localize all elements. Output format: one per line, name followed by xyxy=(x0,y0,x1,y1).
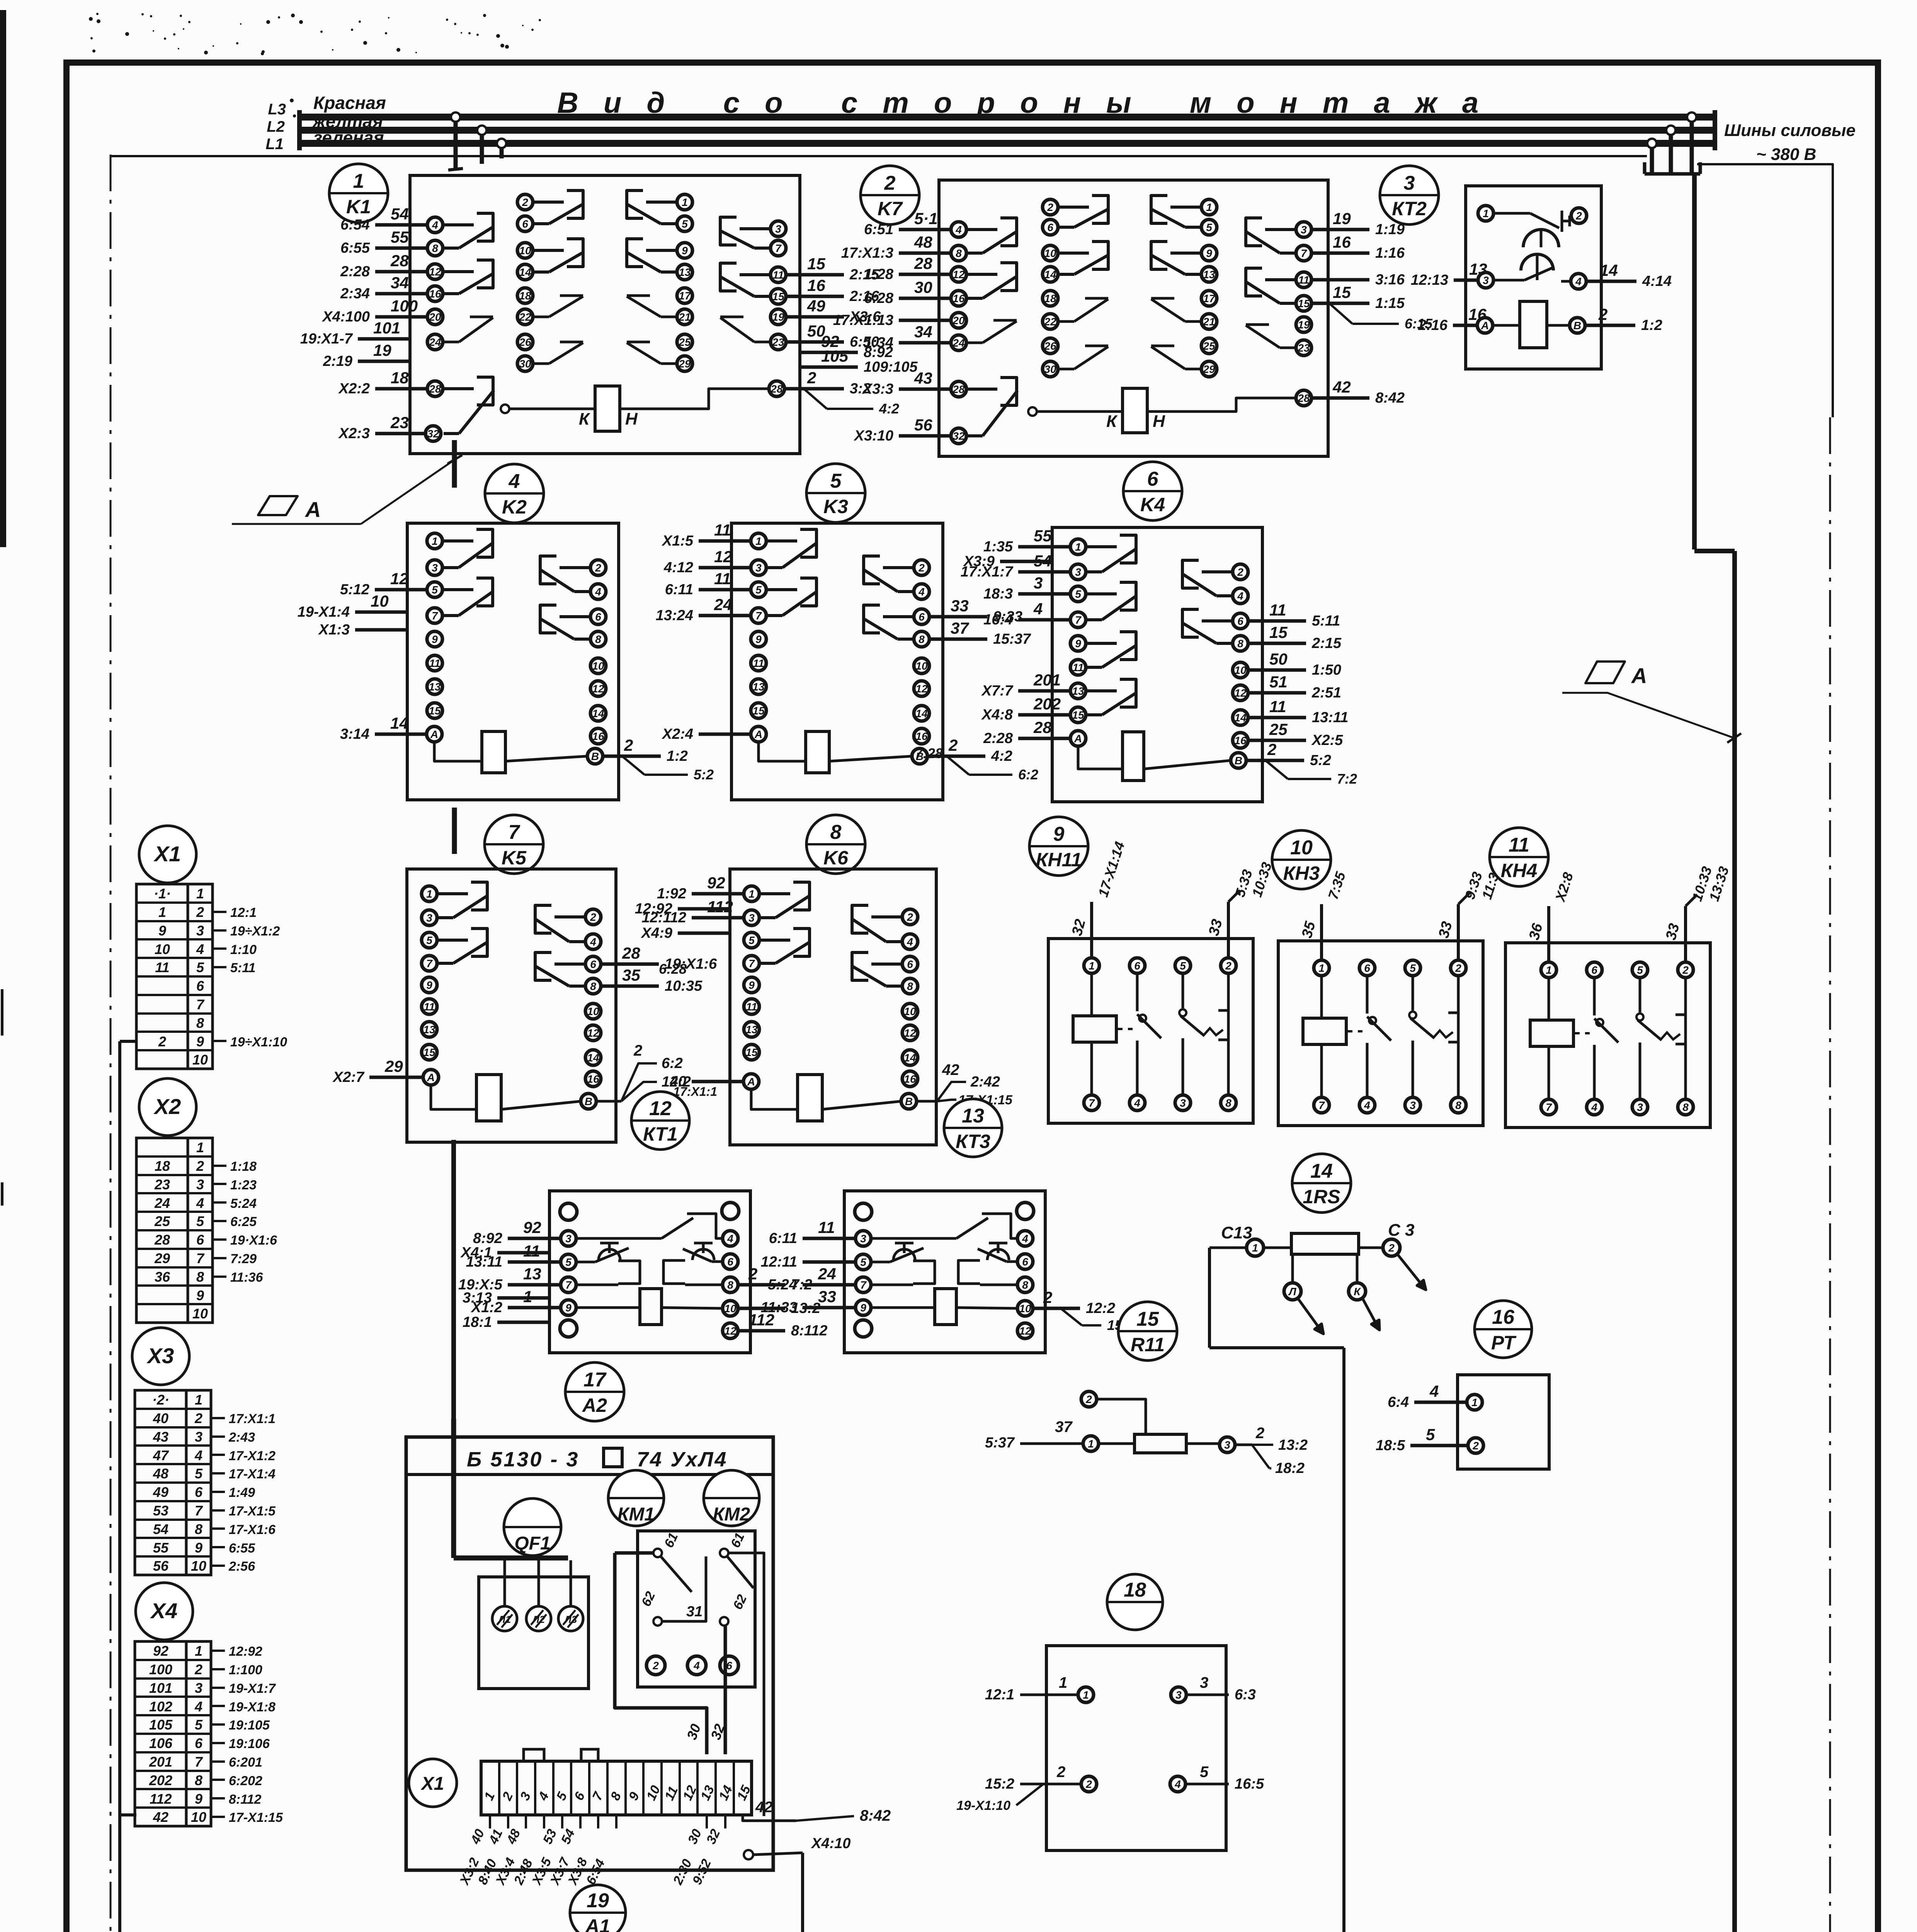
unit A2 X1 comb xyxy=(481,1749,754,1815)
time relay КТ1 right wires xyxy=(739,1265,827,1339)
svg-text:1: 1 xyxy=(1546,964,1552,976)
svg-text:2:42: 2:42 xyxy=(970,1074,1000,1090)
bus L3 Красная xyxy=(299,110,1715,124)
svg-text:2: 2 xyxy=(1085,1393,1092,1405)
svg-text:2: 2 xyxy=(595,562,601,574)
svg-text:21: 21 xyxy=(678,311,691,323)
svg-text:К: К xyxy=(579,410,590,429)
time relay КТ3 internal contacts xyxy=(871,1214,1017,1325)
svg-text:30: 30 xyxy=(1044,363,1056,375)
relay K6 pin B forked wires 2:42 17:X1:15 xyxy=(917,1061,1013,1107)
svg-text:23: 23 xyxy=(772,336,784,348)
svg-text:2:56: 2:56 xyxy=(228,1559,255,1574)
svg-text:1: 1 xyxy=(1483,207,1489,219)
cable mark bar above K5 xyxy=(452,808,457,854)
svg-text:30: 30 xyxy=(519,358,531,370)
svg-text:8: 8 xyxy=(727,1279,733,1291)
unit A2 X1:15 wire 8:42 xyxy=(743,1799,891,1824)
svg-text:2: 2 xyxy=(918,562,925,574)
svg-text:10: 10 xyxy=(904,1005,916,1017)
resistor 1RS element xyxy=(1221,1221,1414,1300)
svg-text:X2:7: X2:7 xyxy=(332,1069,365,1085)
terminal block X3 label circle xyxy=(132,1328,189,1385)
svg-text:1: 1 xyxy=(432,535,438,547)
relay K6 contact pins xyxy=(744,882,918,1087)
svg-text:14: 14 xyxy=(1044,269,1056,281)
svg-text:5: 5 xyxy=(195,1466,203,1481)
svg-text:K7: K7 xyxy=(878,198,903,219)
panel boundary top xyxy=(111,155,1647,157)
svg-text:2: 2 xyxy=(624,736,633,754)
relay K5 right wires xyxy=(601,944,717,994)
svg-text:16:5: 16:5 xyxy=(1235,1776,1264,1792)
svg-text:X3: X3 xyxy=(146,1344,174,1368)
svg-text:16: 16 xyxy=(953,293,965,304)
svg-text:25: 25 xyxy=(678,336,691,348)
svg-text:1:16: 1:16 xyxy=(1375,245,1405,261)
svg-text:16: 16 xyxy=(1234,735,1247,747)
svg-text:5:11: 5:11 xyxy=(1312,613,1340,629)
svg-text:2: 2 xyxy=(1043,1288,1052,1306)
svg-text:16: 16 xyxy=(807,276,825,294)
svg-text:9: 9 xyxy=(682,245,688,257)
svg-text:4: 4 xyxy=(194,1447,202,1463)
svg-text:18: 18 xyxy=(391,369,409,387)
svg-text:5: 5 xyxy=(1180,960,1186,972)
svg-text:5: 5 xyxy=(432,584,438,596)
svg-text:6: 6 xyxy=(522,218,528,230)
svg-text:2: 2 xyxy=(652,1660,659,1672)
svg-text:26: 26 xyxy=(519,336,531,348)
svg-text:3: 3 xyxy=(196,1177,204,1192)
svg-text:8:92: 8:92 xyxy=(473,1230,502,1247)
svg-text:4: 4 xyxy=(196,1195,204,1211)
svg-text:48: 48 xyxy=(914,233,932,251)
svg-text:В: В xyxy=(1573,320,1581,332)
relay K5 coil xyxy=(423,1070,596,1121)
svg-text:34: 34 xyxy=(914,323,932,341)
relay КН11 top wires xyxy=(1069,840,1275,958)
svg-text:6:51: 6:51 xyxy=(864,221,893,238)
svg-text:18: 18 xyxy=(519,290,531,302)
panel unit A2 (pos 17) label circle xyxy=(565,1362,624,1421)
svg-text:16:4: 16:4 xyxy=(983,612,1013,628)
svg-text:2: 2 xyxy=(1388,1242,1395,1254)
svg-text:7: 7 xyxy=(1546,1101,1552,1113)
svg-text:106: 106 xyxy=(149,1735,173,1751)
svg-text:8: 8 xyxy=(196,1015,204,1031)
svg-text:23: 23 xyxy=(1297,342,1310,354)
svg-text:5: 5 xyxy=(748,934,755,946)
svg-text:51: 51 xyxy=(1269,673,1288,691)
unit A2 wire X4:10 to N bus xyxy=(744,1835,850,1932)
svg-text:5: 5 xyxy=(1206,221,1212,233)
svg-text:9: 9 xyxy=(196,1287,204,1303)
svg-text:50: 50 xyxy=(1269,650,1288,668)
svg-text:48: 48 xyxy=(153,1466,168,1481)
svg-text:3:16: 3:16 xyxy=(1375,272,1405,288)
relay PT pins xyxy=(1467,1395,1483,1453)
svg-text:4: 4 xyxy=(1174,1778,1181,1790)
svg-text:КТ2: КТ2 xyxy=(1392,198,1427,219)
svg-text:105: 105 xyxy=(821,347,849,365)
relay КН3 top wires xyxy=(1299,864,1504,960)
svg-text:2: 2 xyxy=(1455,962,1461,974)
svg-text:10: 10 xyxy=(1290,837,1313,859)
time relay KT2 (pos 3) label circle xyxy=(1380,166,1439,224)
svg-text:1:35: 1:35 xyxy=(983,539,1013,555)
svg-text:18:3: 18:3 xyxy=(983,586,1013,602)
svg-text:14: 14 xyxy=(587,1052,599,1064)
svg-text:29: 29 xyxy=(678,358,691,370)
svg-text:11: 11 xyxy=(1269,697,1286,716)
svg-text:19:105: 19:105 xyxy=(229,1718,270,1733)
svg-text:КН11: КН11 xyxy=(1036,849,1082,871)
svg-text:28: 28 xyxy=(1033,718,1052,736)
svg-text:18:1: 18:1 xyxy=(463,1314,492,1330)
svg-text:18: 18 xyxy=(1124,1579,1146,1601)
harness wire from X1:9 down to N bus xyxy=(120,1041,136,1932)
svg-text:4: 4 xyxy=(194,1699,202,1714)
svg-text:7: 7 xyxy=(860,1279,867,1291)
svg-text:8: 8 xyxy=(595,633,601,645)
svg-text:54: 54 xyxy=(391,205,409,223)
svg-text:32: 32 xyxy=(953,430,965,442)
svg-text:36: 36 xyxy=(155,1269,170,1285)
svg-text:1: 1 xyxy=(196,1139,204,1155)
relay КН3 coil and switches xyxy=(1303,976,1458,1097)
relay КН4 pins xyxy=(1541,962,1693,1115)
svg-text:7:29: 7:29 xyxy=(230,1252,257,1266)
svg-text:100: 100 xyxy=(391,297,418,315)
svg-text:9: 9 xyxy=(755,633,762,645)
svg-text:8: 8 xyxy=(919,633,925,645)
svg-text:L2: L2 xyxy=(267,118,285,135)
svg-text:2: 2 xyxy=(907,911,913,923)
time relay KT3 fork 15:2 xyxy=(1061,1308,1135,1333)
svg-text:17: 17 xyxy=(679,290,691,302)
svg-text:4: 4 xyxy=(693,1660,700,1672)
svg-text:12: 12 xyxy=(429,266,441,278)
svg-text:101: 101 xyxy=(373,319,400,337)
svg-text:7: 7 xyxy=(426,957,433,969)
unit A2 header xyxy=(406,1448,773,1475)
svg-text:10: 10 xyxy=(1234,664,1247,676)
svg-text:11: 11 xyxy=(772,269,784,281)
svg-text:1: 1 xyxy=(755,535,762,547)
svg-text:С 3: С 3 xyxy=(1388,1221,1414,1240)
svg-text:X2:4: X2:4 xyxy=(662,726,693,742)
svg-text:33: 33 xyxy=(951,597,969,615)
svg-text:1: 1 xyxy=(1206,201,1212,213)
svg-text:6:4: 6:4 xyxy=(1388,1394,1409,1410)
svg-text:15: 15 xyxy=(423,1046,435,1058)
relay КН3 box xyxy=(1278,941,1483,1126)
svg-text:2: 2 xyxy=(633,1042,642,1059)
svg-text:12: 12 xyxy=(953,269,965,281)
svg-text:28: 28 xyxy=(429,383,441,395)
label Шины силовые ~380 В xyxy=(1724,121,1856,164)
svg-text:24: 24 xyxy=(818,1265,836,1283)
svg-text:13: 13 xyxy=(429,681,441,693)
relay K7 left wires xyxy=(833,209,951,444)
svg-text:5: 5 xyxy=(426,934,432,946)
svg-text:5: 5 xyxy=(196,959,204,975)
svg-text:201: 201 xyxy=(149,1754,172,1770)
terminal block X1 label circle xyxy=(139,826,196,883)
relay K1 right wires xyxy=(786,255,918,397)
svg-text:K6: K6 xyxy=(823,847,849,869)
svg-text:9: 9 xyxy=(860,1302,866,1314)
relay K6 left wires xyxy=(635,874,744,1090)
svg-text:6:28: 6:28 xyxy=(864,290,894,306)
svg-text:7: 7 xyxy=(1318,1099,1325,1111)
relay K7 extra fork 6:15 xyxy=(1329,303,1433,332)
svg-text:11: 11 xyxy=(429,657,440,669)
svg-text:20: 20 xyxy=(429,311,441,323)
unit A2 KM contact box xyxy=(638,1531,755,1687)
svg-text:4: 4 xyxy=(1022,1233,1028,1245)
svg-text:112: 112 xyxy=(707,898,733,916)
svg-text:16: 16 xyxy=(1468,305,1487,323)
svg-text:2:28: 2:28 xyxy=(340,264,370,280)
svg-text:3: 3 xyxy=(426,912,432,924)
svg-text:100: 100 xyxy=(149,1662,172,1677)
svg-text:9: 9 xyxy=(195,1791,202,1807)
svg-text:7: 7 xyxy=(1075,614,1082,626)
svg-text:5:2: 5:2 xyxy=(694,767,714,782)
time relay KT2 box xyxy=(1466,186,1601,369)
svg-text:37: 37 xyxy=(951,619,969,637)
svg-text:1: 1 xyxy=(353,170,364,192)
svg-text:9: 9 xyxy=(1206,247,1212,259)
time relay КТ1 internal contacts xyxy=(576,1214,723,1325)
terminal block X4 label circle xyxy=(136,1583,193,1640)
svg-text:1: 1 xyxy=(195,1392,202,1408)
svg-text:4: 4 xyxy=(196,941,204,957)
relay K7 right wires xyxy=(1311,209,1405,406)
svg-text:В: В xyxy=(585,1095,592,1107)
cable A flag right xyxy=(1562,662,1741,743)
svg-text:15: 15 xyxy=(1269,623,1288,641)
svg-text:6:201: 6:201 xyxy=(229,1755,262,1770)
bus right tap drops xyxy=(1645,112,1700,174)
svg-text:28: 28 xyxy=(622,944,640,962)
svg-text:3: 3 xyxy=(565,1233,572,1245)
svg-text:13: 13 xyxy=(752,681,765,693)
svg-text:11: 11 xyxy=(818,1218,835,1236)
svg-text:6: 6 xyxy=(727,1256,733,1268)
relay K3 box xyxy=(731,523,943,800)
svg-text:7: 7 xyxy=(775,242,782,254)
svg-text:K4: K4 xyxy=(1140,494,1165,515)
relay K3 right wires xyxy=(927,597,1031,764)
svg-text:8: 8 xyxy=(196,1269,204,1285)
svg-text:А: А xyxy=(747,1076,755,1088)
svg-text:6: 6 xyxy=(595,611,601,623)
svg-text:43: 43 xyxy=(153,1429,168,1445)
svg-text:42: 42 xyxy=(1332,378,1351,396)
svg-text:7: 7 xyxy=(432,610,438,622)
svg-text:16: 16 xyxy=(1492,1306,1515,1328)
svg-text:X2:5: X2:5 xyxy=(1311,732,1343,748)
svg-text:26: 26 xyxy=(1044,340,1056,352)
svg-text:3: 3 xyxy=(1301,224,1307,236)
svg-text:6: 6 xyxy=(196,978,204,994)
unit A2 KM contacts xyxy=(639,1531,754,1675)
svg-text:13: 13 xyxy=(1203,269,1215,281)
svg-text:47: 47 xyxy=(153,1447,169,1463)
svg-text:5:11: 5:11 xyxy=(230,961,256,975)
svg-text:16: 16 xyxy=(429,288,441,300)
svg-text:19:106: 19:106 xyxy=(229,1736,270,1751)
unit A2 KM2 right wire down xyxy=(728,1553,764,1816)
svg-text:6:11: 6:11 xyxy=(769,1230,797,1247)
svg-text:12: 12 xyxy=(1019,1325,1031,1337)
svg-text:17-X1:2: 17-X1:2 xyxy=(229,1449,276,1463)
svg-text:10: 10 xyxy=(1019,1303,1031,1315)
svg-text:49: 49 xyxy=(807,297,825,315)
svg-text:16: 16 xyxy=(915,730,928,742)
relay K3 (pos 5) label circle xyxy=(806,464,865,522)
svg-text:1: 1 xyxy=(1252,1242,1258,1254)
svg-text:13: 13 xyxy=(1072,685,1084,697)
svg-text:9: 9 xyxy=(1053,823,1065,845)
svg-text:2: 2 xyxy=(1598,305,1607,323)
harness trunk to A2 xyxy=(451,1140,456,1558)
svg-text:14: 14 xyxy=(1234,712,1247,724)
svg-text:19·X1:6: 19·X1:6 xyxy=(230,1233,277,1248)
svg-text:20: 20 xyxy=(952,315,965,327)
unit A2 power feed elbow xyxy=(454,1419,568,1558)
svg-text:18: 18 xyxy=(1044,293,1056,304)
terminal block X2 table xyxy=(136,1138,277,1323)
svg-text:Шины силовые: Шины силовые xyxy=(1724,121,1856,140)
svg-text:105: 105 xyxy=(149,1717,173,1733)
svg-text:А: А xyxy=(430,728,438,740)
svg-text:X4:10: X4:10 xyxy=(811,1835,850,1852)
svg-text:3: 3 xyxy=(775,223,781,235)
svg-text:7: 7 xyxy=(196,1250,205,1266)
svg-text:К: К xyxy=(1354,1286,1361,1298)
unit A2 KM wires to X1 xyxy=(615,1553,728,1754)
svg-text:В: В xyxy=(591,750,599,762)
relay K4 box xyxy=(1052,527,1262,802)
cable A flag left xyxy=(232,455,462,524)
svg-text:9: 9 xyxy=(426,979,432,991)
svg-text:зеленая: зеленая xyxy=(313,128,384,148)
svg-text:6: 6 xyxy=(196,1232,204,1248)
relay K3 left wires xyxy=(656,521,751,742)
svg-text:4: 4 xyxy=(1591,1101,1597,1113)
svg-text:7:28: 7:28 xyxy=(915,745,943,761)
relay КН11 pins xyxy=(1084,958,1236,1111)
svg-text:1: 1 xyxy=(1089,960,1095,972)
svg-text:24: 24 xyxy=(154,1195,170,1211)
svg-text:12: 12 xyxy=(915,683,928,695)
relay K1 contact pins xyxy=(427,190,786,371)
svg-text:2: 2 xyxy=(194,1410,202,1426)
svg-text:3: 3 xyxy=(1404,172,1415,194)
panel boundary dash-dot left xyxy=(110,155,112,1932)
svg-text:5: 5 xyxy=(1075,588,1081,600)
svg-text:4: 4 xyxy=(595,586,601,598)
svg-text:6: 6 xyxy=(726,1660,732,1672)
svg-text:11: 11 xyxy=(714,570,731,588)
svg-text:19-X1:7: 19-X1:7 xyxy=(229,1681,276,1696)
svg-text:5: 5 xyxy=(565,1256,572,1268)
svg-text:1:15: 1:15 xyxy=(1375,295,1405,311)
svg-text:4: 4 xyxy=(955,224,962,236)
svg-text:15: 15 xyxy=(752,705,765,717)
svg-text:8: 8 xyxy=(1682,1101,1689,1113)
svg-text:1: 1 xyxy=(158,904,166,920)
resistor R11 element xyxy=(1081,1391,1252,1453)
svg-text:12: 12 xyxy=(904,1027,916,1039)
svg-text:5: 5 xyxy=(1200,1764,1209,1781)
svg-text:13: 13 xyxy=(1469,260,1487,278)
svg-text:1: 1 xyxy=(195,1643,202,1659)
svg-text:1:23: 1:23 xyxy=(230,1178,257,1192)
resistor R11 (pos 15) label circle xyxy=(1118,1302,1177,1361)
svg-text:53: 53 xyxy=(153,1503,168,1519)
svg-text:8: 8 xyxy=(907,980,913,992)
svg-text:2: 2 xyxy=(196,904,204,920)
unit A2 QF1 label circle xyxy=(504,1498,561,1556)
unit A2 X1 bottom wires xyxy=(457,1815,725,1888)
scan edge strip left xyxy=(0,10,6,547)
svg-text:10:35: 10:35 xyxy=(665,978,703,994)
svg-text:6: 6 xyxy=(1047,221,1053,233)
svg-text:21: 21 xyxy=(1203,316,1215,328)
svg-text:55: 55 xyxy=(1034,527,1052,545)
svg-text:19-X1:8: 19-X1:8 xyxy=(229,1700,276,1714)
svg-text:А: А xyxy=(427,1071,435,1083)
svg-text:Л2: Л2 xyxy=(532,1614,545,1625)
svg-text:55: 55 xyxy=(391,228,409,246)
svg-text:X1:2: X1:2 xyxy=(471,1299,502,1316)
svg-text:15: 15 xyxy=(429,705,441,717)
svg-text:X4:9: X4:9 xyxy=(641,925,672,941)
svg-text:6:3: 6:3 xyxy=(1235,1687,1256,1703)
svg-text:15:2: 15:2 xyxy=(985,1776,1014,1792)
resistor R11 left wire 5:37 xyxy=(985,1418,1083,1451)
relay K6 right wires xyxy=(0,0,0,0)
svg-text:17-X1:5: 17-X1:5 xyxy=(229,1504,276,1519)
svg-text:8: 8 xyxy=(1225,1097,1232,1109)
svg-text:КН3: КН3 xyxy=(1283,862,1320,884)
svg-text:2: 2 xyxy=(1575,210,1582,222)
cable mark bar above K2 xyxy=(452,440,457,488)
relay K6 box xyxy=(730,869,936,1145)
svg-text:12:1: 12:1 xyxy=(985,1687,1014,1703)
svg-text:R11: R11 xyxy=(1131,1334,1165,1355)
svg-text:29: 29 xyxy=(384,1057,403,1075)
svg-text:3: 3 xyxy=(1175,1689,1182,1701)
svg-text:2:19: 2:19 xyxy=(323,353,352,369)
svg-text:·1·: ·1· xyxy=(154,886,171,901)
svg-text:11: 11 xyxy=(1269,601,1286,619)
svg-text:5:12: 5:12 xyxy=(340,582,369,598)
svg-text:5: 5 xyxy=(1410,962,1416,974)
svg-text:2: 2 xyxy=(884,172,896,194)
svg-text:8: 8 xyxy=(830,821,842,844)
svg-text:КМ2: КМ2 xyxy=(713,1504,750,1525)
svg-text:12: 12 xyxy=(587,1027,599,1039)
svg-text:17:X1:3: 17:X1:3 xyxy=(841,245,893,261)
svg-text:6: 6 xyxy=(1022,1256,1028,1268)
terminal block X2 label circle xyxy=(139,1078,196,1136)
